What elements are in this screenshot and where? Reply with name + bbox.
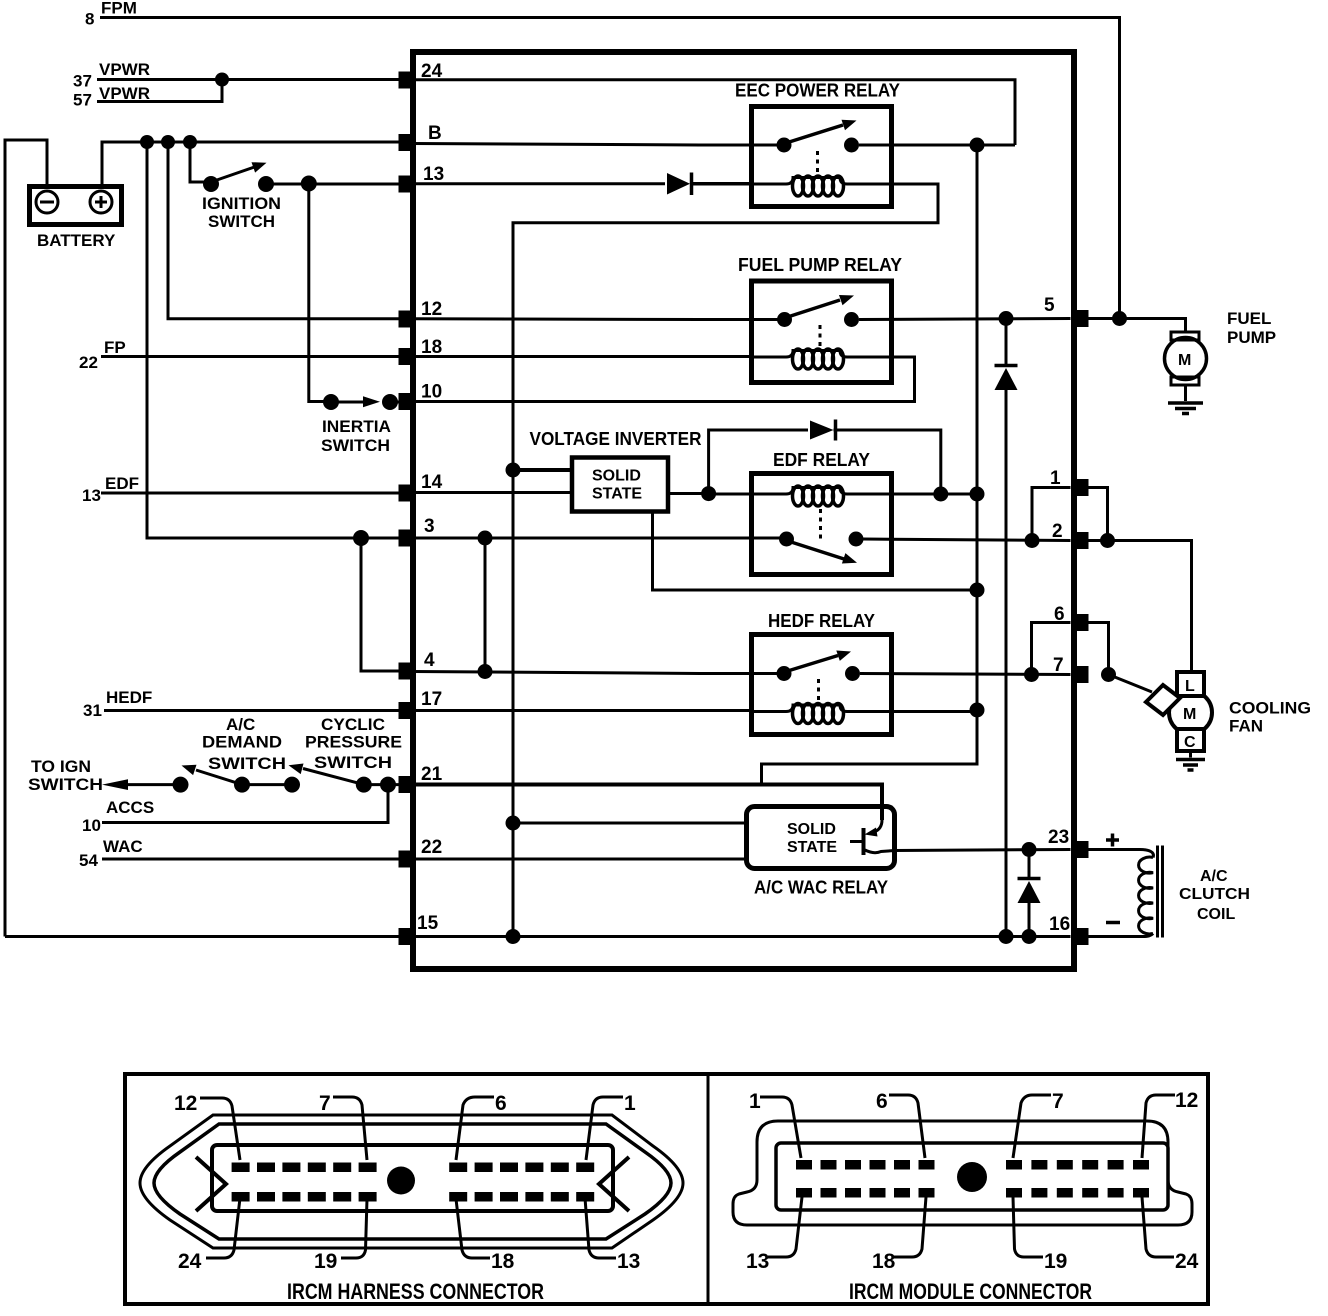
svg-text:13: 13 (746, 1250, 769, 1273)
svg-text:18: 18 (872, 1250, 896, 1273)
svg-text:10: 10 (82, 816, 101, 835)
svg-text:PUMP: PUMP (1227, 328, 1276, 347)
wire FP relay coil return to pin 10 (413, 357, 915, 402)
IRCM harness connector J1 (140, 1115, 683, 1248)
svg-text:SWITCH: SWITCH (208, 212, 275, 231)
svg-text:A/C: A/C (226, 715, 255, 734)
pin 4 (399, 663, 415, 680)
label FUEL PUMP (1227, 309, 1276, 347)
EDF relay K3 (709, 450, 977, 575)
wire feed to pin 12 line (168, 142, 406, 319)
svg-text:23: 23 (1048, 827, 1069, 848)
node FP pin 22 label (79, 338, 126, 372)
junction clutch diode bottom (1022, 929, 1037, 944)
junction ground rail WAC input (506, 816, 521, 831)
wire inverter output right (668, 492, 709, 495)
wire ground bus internal pin15 to pin16 (413, 935, 1071, 938)
svg-text:IRCM HARNESS CONNECTOR: IRCM HARNESS CONNECTOR (287, 1279, 544, 1304)
pin 10 (399, 393, 415, 410)
junction FPM tap (1112, 311, 1127, 326)
battery BAT (30, 187, 122, 251)
svg-text:FUEL PUMP RELAY: FUEL PUMP RELAY (738, 255, 902, 275)
svg-text:SWITCH: SWITCH (314, 753, 392, 772)
pin 14 (399, 485, 415, 502)
pin 1 (1073, 479, 1089, 496)
svg-text:6: 6 (876, 1090, 888, 1113)
wire pin 6 jumper outside (1087, 623, 1109, 675)
wire EDF contact to pin 2 (863, 539, 1071, 541)
wire EDF flyback diode branch (709, 430, 808, 494)
svg-text:B: B (428, 123, 442, 144)
pin 13 (399, 176, 415, 193)
pin 2 (1073, 532, 1089, 549)
junction inverter output (701, 486, 716, 501)
connector panel box (125, 1074, 1208, 1304)
svg-text:CYCLIC: CYCLIC (321, 715, 385, 734)
wire pin 18 internal to FP relay coil (413, 355, 752, 358)
battery positive terminal (90, 191, 112, 213)
wire VPWR 37 to module pin 24 (97, 78, 406, 81)
svg-text:17: 17 (421, 689, 442, 710)
junction ACCS tap (380, 777, 396, 793)
wire inverter input (513, 468, 572, 472)
node EDF pin 13 label (82, 474, 139, 505)
svg-text:1: 1 (1050, 468, 1061, 489)
pin 15 (399, 928, 415, 945)
wire feed rail to WAC relay (762, 710, 978, 785)
svg-text:SOLID: SOLID (787, 821, 836, 838)
A/C WAC relay U2 (747, 807, 896, 898)
fan terminal C (1177, 729, 1204, 751)
wire EEC coil return to ground rail (513, 184, 938, 937)
svg-text:ACCS: ACCS (106, 798, 154, 817)
wire feed rail down (976, 145, 979, 710)
IRCM module connector J2 (733, 1121, 1192, 1225)
wire to ign switch arrow (102, 779, 128, 790)
diode CR1 on pin 13 line (667, 173, 690, 195)
pin 3 (399, 530, 415, 547)
junction battery feed 1 (140, 135, 154, 149)
svg-text:C: C (1184, 734, 1196, 751)
motor M1 body (1171, 332, 1199, 340)
node HEDF pin 31 label (83, 688, 152, 720)
wire pin 13 internal to diode (413, 182, 665, 185)
svg-text:WAC: WAC (103, 837, 143, 856)
svg-text:STATE: STATE (592, 486, 642, 503)
pin 16 (1073, 928, 1089, 945)
label A/C CLUTCH COIL (1179, 868, 1250, 923)
wire ground rail to WAC box (513, 822, 746, 825)
node VPWR pin 37 label (73, 60, 150, 91)
junction EDF coil right (933, 487, 948, 502)
pin B (399, 134, 415, 151)
pin 17 (399, 702, 415, 719)
wire WAC output to pin 23 (894, 850, 1071, 851)
pin 5 (1073, 310, 1089, 327)
wire ignition to inertia switch (309, 184, 325, 402)
junction pin3-pin4 jumper top (478, 531, 493, 546)
svg-text:STATE: STATE (787, 839, 837, 856)
pin 23 (1073, 841, 1089, 858)
wire pin 5 external to fuel pump (1087, 319, 1186, 333)
svg-text:54: 54 (79, 851, 98, 870)
wire pin 6 jumper inside (1032, 623, 1071, 675)
wire HEDF contact to pin 7 (860, 674, 1071, 675)
node plus terminal (1106, 834, 1119, 847)
junction HEDF coil feed rail (970, 703, 985, 718)
module pins top row (796, 1160, 1149, 1170)
cooling fan M2 (1109, 672, 1312, 770)
svg-text:5: 5 (1044, 295, 1055, 316)
svg-text:1: 1 (624, 1092, 636, 1115)
battery body (30, 187, 122, 225)
svg-text:2: 2 (1052, 521, 1063, 542)
label COOLING FAN (1229, 699, 1311, 736)
pin 21 (399, 776, 415, 793)
node TO IGN SWITCH (28, 757, 103, 794)
wire feed to pin 3 line (147, 142, 406, 538)
wire FP to module pin 18 (101, 355, 406, 358)
junction pin 6 jumper inside (1024, 667, 1039, 682)
junction ground rail bottom (506, 929, 521, 944)
svg-text:EDF RELAY: EDF RELAY (773, 450, 870, 470)
fan terminal L (1177, 672, 1204, 696)
module pin leader lines (760, 1095, 1175, 1257)
svg-text:SWITCH: SWITCH (28, 775, 103, 794)
svg-text:57: 57 (73, 91, 92, 110)
svg-text:21: 21 (421, 764, 443, 785)
module pin labels (746, 1089, 1199, 1273)
wire pin 1 jumper inside (1032, 488, 1071, 541)
harness pin leader lines (200, 1097, 623, 1258)
junction feed rail inverter (970, 583, 985, 598)
svg-text:12: 12 (1175, 1089, 1198, 1112)
svg-text:FP: FP (104, 338, 126, 357)
pin 18 (399, 348, 415, 365)
wire pin 22 internal to WAC box (413, 858, 746, 861)
wire fan feed diagonal (1109, 675, 1153, 693)
svg-text:7: 7 (1052, 1090, 1064, 1113)
transistor Q1 (862, 828, 866, 855)
wire battery negative to ground bus (5, 140, 47, 937)
ground cooling fan (1189, 751, 1192, 758)
svg-text:24: 24 (178, 1250, 202, 1273)
svg-text:IGNITION: IGNITION (202, 194, 281, 213)
diode CR4 clutch (1028, 856, 1031, 877)
svg-text:18: 18 (421, 337, 442, 358)
svg-text:13: 13 (82, 486, 101, 505)
wire pin 16 to coil (1087, 934, 1154, 937)
wire pin 24 internal to EEC contact feed (413, 80, 1015, 145)
svg-text:FPM: FPM (101, 0, 137, 18)
svg-text:HEDF RELAY: HEDF RELAY (768, 611, 875, 631)
svg-text:PRESSURE: PRESSURE (305, 733, 402, 752)
svg-text:A/C WAC RELAY: A/C WAC RELAY (754, 878, 888, 898)
wire pin 3 internal to EDF contact (413, 537, 787, 540)
svg-text:EDF: EDF (105, 474, 139, 493)
wire battery positive to module pin B (102, 142, 406, 184)
wire WAC to module pin 22 (102, 858, 406, 861)
pin 7 (1073, 666, 1089, 683)
svg-text:CLUTCH: CLUTCH (1179, 886, 1250, 903)
wire pin 2 to cooling fan L (1087, 541, 1192, 673)
svg-text:SOLID: SOLID (592, 468, 641, 485)
node minus terminal (1106, 921, 1120, 925)
junction battery feed 3 (183, 135, 197, 149)
pin 22 (399, 851, 415, 868)
junction pin 7 outside (1101, 667, 1116, 682)
svg-text:VOLTAGE INVERTER: VOLTAGE INVERTER (530, 429, 702, 449)
svg-text:COIL: COIL (1197, 906, 1235, 923)
svg-text:VPWR: VPWR (99, 60, 150, 79)
wire EDF to module pin 14 (101, 492, 406, 495)
fuel pump relay K2 (738, 255, 902, 383)
junction clutch diode top (1022, 842, 1037, 857)
ground fuel pump (1168, 403, 1203, 414)
motor M2 body (1169, 691, 1212, 734)
node WAC pin 54 label (79, 837, 143, 870)
wire pin 17 internal to HEDF coil (413, 709, 752, 712)
IRCM module box (413, 52, 1074, 969)
junction pin3 branch (353, 530, 369, 546)
pin 24 (399, 72, 415, 89)
svg-text:37: 37 (73, 72, 92, 91)
wire ACCS to switch line (102, 785, 388, 823)
svg-text:3: 3 (424, 516, 435, 537)
wire FPM from pin 8 to right side (100, 18, 1120, 319)
svg-text:18: 18 (491, 1250, 515, 1273)
svg-text:16: 16 (1049, 914, 1070, 935)
svg-text:12: 12 (174, 1092, 197, 1115)
svg-text:1: 1 (749, 1090, 761, 1113)
svg-text:SWITCH: SWITCH (321, 436, 390, 455)
diode CR3 EDF (810, 421, 834, 440)
inertia switch S2 (321, 394, 406, 455)
svg-text:IRCM MODULE CONNECTOR: IRCM MODULE CONNECTOR (849, 1279, 1092, 1304)
wire FP relay contact to pin 5 (859, 319, 1071, 320)
harness pins top row (232, 1163, 595, 1173)
svg-text:BATTERY: BATTERY (37, 231, 116, 250)
svg-text:HEDF: HEDF (106, 688, 152, 707)
svg-text:A/C: A/C (1200, 868, 1228, 885)
svg-text:SWITCH: SWITCH (208, 754, 286, 773)
inductor core L1 (1158, 846, 1163, 938)
wire pin 4 internal to HEDF contact (413, 672, 784, 674)
inductor winding L1 (1139, 857, 1153, 934)
harness pins bottom row (232, 1192, 595, 1202)
connector panel divider (707, 1074, 710, 1304)
junction pin 1 jumper inside (1025, 533, 1040, 548)
wire inverter output down (653, 511, 978, 590)
voltage inverter solid state U1 (572, 458, 668, 512)
wire pin 21 internal to WAC transistor (413, 785, 882, 821)
EEC power relay K1 (735, 81, 900, 207)
node VPWR pin 57 label (73, 84, 150, 110)
svg-text:7: 7 (319, 1092, 331, 1115)
svg-text:TO IGN: TO IGN (31, 757, 91, 776)
pin 12 (399, 311, 415, 328)
A/C clutch coil L1 (1087, 834, 1251, 938)
HEDF relay K4 (752, 611, 978, 735)
svg-text:31: 31 (83, 701, 102, 720)
wire pin 23 to coil (1087, 850, 1154, 858)
svg-text:15: 15 (417, 913, 439, 934)
svg-text:19: 19 (1044, 1250, 1067, 1273)
svg-text:12: 12 (421, 299, 442, 320)
svg-text:22: 22 (421, 837, 442, 858)
junction inverter input on ground rail (506, 463, 521, 478)
wire pin 1 jumper outside (1087, 488, 1108, 541)
diode CR2 rail (1005, 325, 1008, 364)
svg-text:24: 24 (1175, 1250, 1199, 1273)
wire pin 12 internal to fuel pump relay (413, 317, 784, 321)
junction EEC feed rail (970, 138, 985, 153)
svg-text:COOLING: COOLING (1229, 699, 1311, 718)
ignition switch S1 (190, 142, 406, 231)
svg-text:M: M (1178, 352, 1191, 369)
svg-text:FAN: FAN (1229, 717, 1263, 736)
pin 6 (1073, 614, 1089, 631)
svg-text:19: 19 (314, 1250, 337, 1273)
junction VPWR (215, 73, 229, 87)
svg-text:L: L (1185, 678, 1195, 695)
junction diode rail top (999, 311, 1014, 326)
wire EEC contact to pin 24 feed (859, 144, 1015, 147)
svg-text:13: 13 (423, 164, 444, 185)
svg-text:INERTIA: INERTIA (322, 417, 391, 436)
junction battery feed 2 (161, 135, 175, 149)
svg-text:22: 22 (79, 353, 98, 372)
A/C demand switch S3 (173, 715, 293, 793)
wire pin B internal to EEC relay contact (413, 144, 784, 146)
fan inline connector (1146, 685, 1180, 715)
svg-text:M: M (1183, 706, 1196, 723)
module pins bottom row (796, 1188, 1149, 1198)
svg-text:FUEL: FUEL (1227, 309, 1271, 328)
junction diode rail bottom (999, 929, 1014, 944)
node FPM pin 8 label (85, 0, 137, 29)
wire ground bus to module pin 15 (5, 935, 406, 938)
harness pin labels (174, 1092, 640, 1273)
svg-text:7: 7 (1053, 655, 1064, 676)
junction pin3-pin4 jumper bottom (478, 664, 493, 679)
wire VPWR 57 joining 37 (97, 80, 222, 102)
svg-text:8: 8 (85, 10, 94, 29)
svg-text:14: 14 (421, 472, 443, 493)
battery negative terminal (36, 191, 58, 213)
svg-text:10: 10 (421, 382, 442, 403)
fuel pump motor M1 (1165, 309, 1277, 401)
wire HEDF to module pin 17 (104, 709, 406, 712)
svg-text:EEC POWER RELAY: EEC POWER RELAY (735, 81, 900, 101)
svg-text:13: 13 (617, 1250, 640, 1273)
wire pin 14 internal to inverter (413, 491, 572, 494)
svg-text:6: 6 (495, 1092, 507, 1115)
svg-text:DEMAND: DEMAND (202, 733, 282, 752)
node ACCS pin 10 label (82, 798, 154, 835)
wire pin3 branch down to pin 4 (361, 538, 406, 671)
cyclic pressure switch S4 (284, 715, 406, 793)
junction pin 2 outside (1100, 533, 1115, 548)
svg-text:4: 4 (424, 650, 435, 671)
wire pin3-pin4 jumper (484, 538, 487, 672)
junction EDF coil feed rail (970, 487, 985, 502)
